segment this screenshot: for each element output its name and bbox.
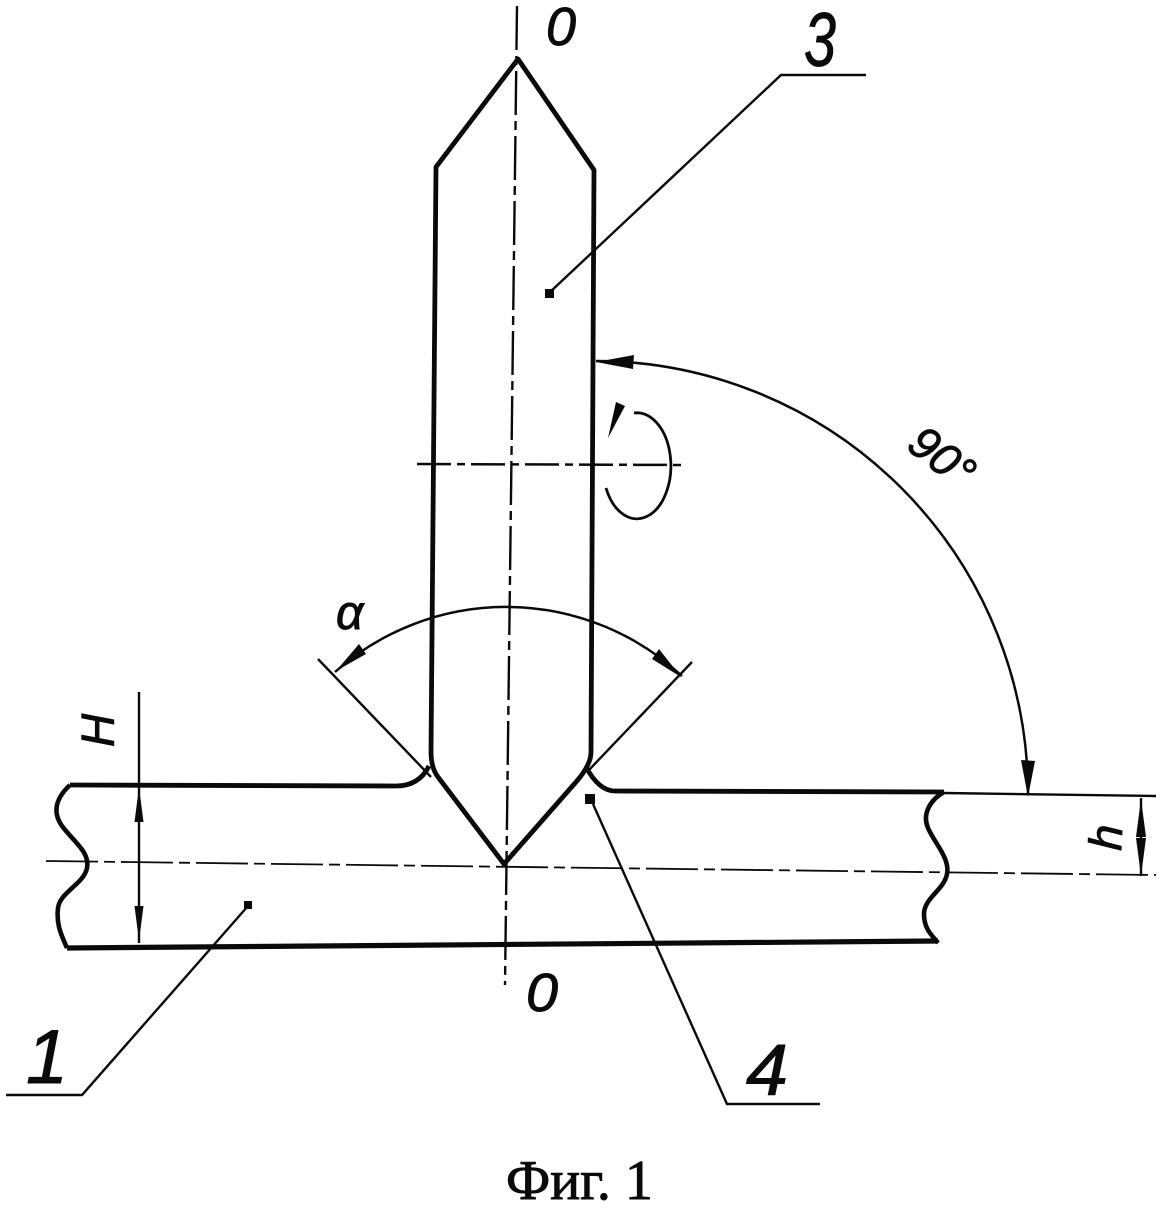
leader line for 3: [549, 75, 866, 293]
tool horizontal centerline: [417, 464, 685, 465]
vertical axis centerline O-O: [505, 6, 517, 985]
leader dot 3: [545, 289, 554, 298]
plate 1 bottom surface: [67, 941, 938, 948]
plate horizontal centerline: [46, 861, 1156, 875]
plate left break line: [56, 785, 87, 948]
dimension h arrow up: [1136, 799, 1146, 837]
dimension h arrow down: [1136, 838, 1146, 876]
90 arc arrow down: [1021, 760, 1035, 797]
leader line for 4: [593, 804, 820, 1104]
right taper extension line: [588, 662, 692, 771]
svg-text:3: 3: [804, 0, 836, 83]
dimension h line: [1140, 798, 1142, 876]
tool 3 outline: [431, 59, 594, 864]
plate top surface thin extension to right edge: [944, 793, 1156, 796]
dimension H arrow down: [135, 906, 144, 941]
plate 1 top surface left: [70, 766, 429, 786]
left taper extension line: [318, 659, 431, 777]
plate 1 top surface right: [586, 767, 944, 792]
label h: [1079, 823, 1132, 851]
svg-text:1: 1: [26, 1015, 68, 1100]
leader dot 1: [244, 901, 252, 909]
alpha arc: [335, 607, 682, 676]
90 arc arrow left: [596, 355, 634, 369]
svg-text:4: 4: [746, 1031, 788, 1111]
plate right break line: [924, 792, 947, 943]
alpha arc arrow left: [336, 644, 366, 671]
rotation arrow head: [608, 402, 625, 438]
svg-text:0: 0: [526, 963, 558, 1023]
svg-text:Фиг.1: Фиг.1: [506, 1150, 653, 1212]
label 90deg: [899, 415, 986, 499]
leader line for 1: [6, 906, 248, 1095]
dimension H line: [138, 692, 140, 943]
svg-text:0: 0: [546, 0, 576, 57]
rotation arrow ellipse: [606, 413, 671, 519]
dimension H arrow up: [135, 787, 144, 822]
label H: [72, 713, 124, 747]
svg-text:α: α: [336, 587, 365, 640]
svg-text:h: h: [1079, 823, 1132, 851]
alpha arc arrow right: [652, 649, 681, 677]
90 degree arc: [596, 361, 1028, 794]
svg-text:H: H: [72, 713, 124, 747]
leader dot 4: [585, 794, 595, 804]
